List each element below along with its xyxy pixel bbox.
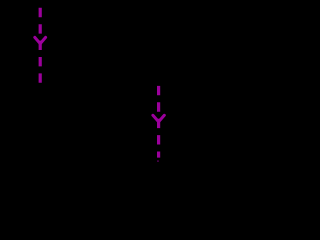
arrowhead of arrow 2 [153,115,164,121]
dashed flow arrow 1 (left, pointing down) [35,8,46,84]
dashed flow arrow 2 (right, pointing down) [153,86,164,162]
faint dash fragment at end of arrow 2 [157,160,159,162]
wire: dashed shaft of arrow 1 [39,8,42,84]
arrowhead of arrow 1 [35,37,46,43]
wire: dashed shaft of arrow 2 [157,86,160,158]
